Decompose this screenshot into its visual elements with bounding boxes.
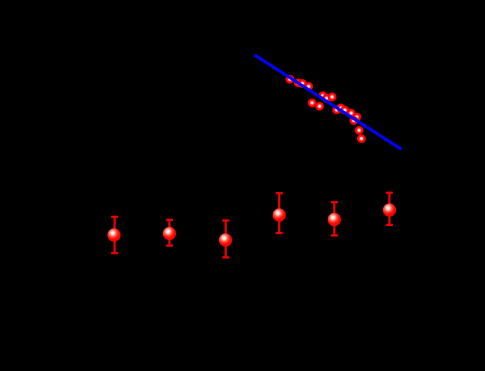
error bar point 2 [163,220,176,246]
scatter marker 5 [308,98,317,107]
scatter marker 9 [332,105,341,114]
scatter marker 13 [352,113,361,122]
scatter marker 10 [337,104,346,113]
scatter marker 16 [357,134,366,143]
error bar point 5 [328,202,341,235]
scatter marker 6 [315,102,324,111]
scatter marker 3 [298,79,307,88]
scatter marker 15 [355,126,364,135]
scatter marker 4 [304,82,313,91]
scatter marker 8 [328,93,337,102]
scatter marker 1 [286,75,295,84]
error bar point 1 [107,217,120,253]
error bar point 3 [219,221,232,258]
scatter marker 7b [322,94,331,103]
scatter marker 11 [340,106,349,115]
error bar point 6 [383,193,396,225]
scatter marker 12 [347,109,356,118]
scatter marker 2 [294,78,303,87]
error bar point 4 [273,193,286,233]
fit line [255,55,402,149]
scatter marker 14 [349,116,358,125]
scatter marker 7 [319,91,328,100]
